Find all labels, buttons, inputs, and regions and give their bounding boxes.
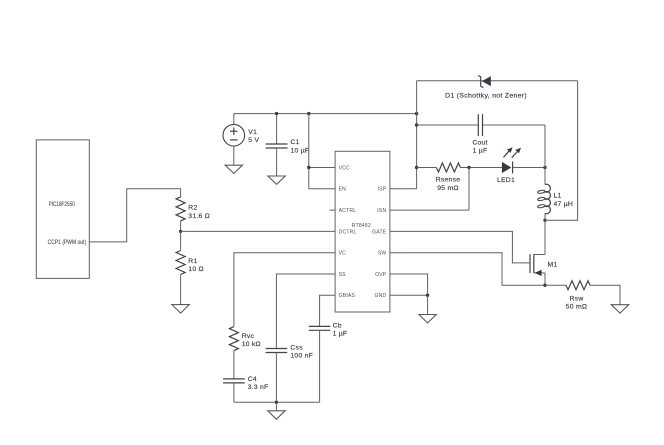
wire supply rail V1 to D1 column <box>234 113 417 115</box>
transistor M1 (NMOS) <box>529 254 531 273</box>
wire Cout row <box>417 124 479 126</box>
junction source/SW/Rsw <box>543 284 546 287</box>
junction rail/C1 <box>275 112 278 115</box>
wire Rvc to C4 <box>233 351 235 379</box>
wire D1 top row <box>417 80 578 82</box>
svg-text:R2: R2 <box>188 205 197 212</box>
ground symbol (below V1) <box>225 165 242 173</box>
IC U1 RT8482 box <box>335 151 390 312</box>
svg-text:SW: SW <box>378 251 387 257</box>
junction bottom net / ground <box>275 401 278 404</box>
wire node A to DCTRL pin <box>181 230 336 232</box>
capacitor Cb <box>309 325 331 327</box>
wire SS pin to Css <box>276 274 335 349</box>
node A junction (R1/R2/DCTRL) <box>179 230 182 233</box>
svg-text:10 Ω: 10 Ω <box>188 266 204 273</box>
svg-text:R1: R1 <box>188 258 197 265</box>
wire column to Rsense <box>417 167 437 169</box>
wire L1 bottom to node <box>544 213 546 220</box>
svg-text:10 µF: 10 µF <box>291 147 310 154</box>
wire SW pin to source node <box>390 253 545 286</box>
LED LED1 <box>502 162 511 173</box>
svg-text:SS: SS <box>339 272 347 278</box>
svg-text:10 kΩ: 10 kΩ <box>242 341 261 348</box>
svg-text:DCTRL: DCTRL <box>339 229 357 235</box>
ground symbol (below GND pin) <box>419 315 436 323</box>
svg-text:Cout: Cout <box>472 139 487 146</box>
voltage source V1 5V <box>233 114 235 125</box>
wire GBIAS pin to Cb <box>320 295 336 326</box>
wire rail to VCC and EN pins <box>309 114 335 189</box>
svg-text:5 V: 5 V <box>248 137 259 144</box>
wire CCP1 output to R2 top <box>89 189 180 242</box>
capacitor Cout <box>477 114 479 136</box>
svg-text:EN: EN <box>339 187 347 193</box>
svg-text:ISN: ISN <box>377 208 386 214</box>
wire ISP pin to sense column <box>390 188 417 190</box>
microcontroller U2 PIC18F2550 box <box>36 140 89 279</box>
wire bottom net <box>234 401 320 403</box>
ground symbol (below C1) <box>268 176 285 184</box>
svg-text:GND: GND <box>375 293 387 299</box>
svg-text:50 mΩ: 50 mΩ <box>566 304 587 311</box>
svg-text:C1: C1 <box>291 139 300 146</box>
svg-text:GBIAS: GBIAS <box>339 293 356 299</box>
junction rail/D1 column <box>415 112 418 115</box>
svg-text:PIC18F2550: PIC18F2550 <box>49 202 76 208</box>
svg-text:OVP: OVP <box>375 272 387 278</box>
svg-text:Rsense: Rsense <box>436 177 461 184</box>
resistor R2 <box>176 197 185 221</box>
wire D1/ISP column <box>416 81 418 189</box>
capacitor C4 <box>223 378 245 380</box>
svg-text:Rsw: Rsw <box>570 295 584 302</box>
svg-text:LED1: LED1 <box>497 177 515 184</box>
LED1 emission arrow 1 <box>503 150 510 157</box>
wire GND node down <box>427 295 429 314</box>
svg-text:RT8482: RT8482 <box>352 223 371 229</box>
junction Rsense/ISN <box>467 166 470 169</box>
wire L1 column top <box>544 125 546 184</box>
wire C4 to bottom net <box>233 383 235 402</box>
wire Css to bottom net <box>275 353 277 403</box>
svg-text:3.3 nF: 3.3 nF <box>248 384 269 391</box>
wire source node to Rsw <box>545 284 566 286</box>
svg-text:GATE: GATE <box>372 229 387 235</box>
svg-text:Css: Css <box>290 345 303 352</box>
svg-text:1 µF: 1 µF <box>333 331 348 338</box>
svg-text:VC: VC <box>339 251 347 257</box>
junction column/Cout row <box>415 123 418 126</box>
ACTRL pin stub <box>330 209 336 211</box>
svg-text:CCP1 (PWM out): CCP1 (PWM out) <box>48 240 87 246</box>
LED1 emission arrow 2 <box>512 151 519 158</box>
svg-text:ISP: ISP <box>378 187 387 193</box>
junction L1/D1 return/drain <box>543 219 546 222</box>
svg-text:VCC: VCC <box>339 165 350 171</box>
svg-text:1 µF: 1 µF <box>473 148 488 155</box>
svg-text:D1 (Schottky, not Zener): D1 (Schottky, not Zener) <box>445 93 527 100</box>
wire ISN pin to sense node <box>390 209 469 211</box>
ground symbol (below R1) <box>172 305 189 314</box>
junction LED row / L1 column <box>543 166 546 169</box>
wire GND pin <box>390 294 428 296</box>
wire VC pin to Rvc <box>234 253 335 327</box>
svg-text:ACTRL: ACTRL <box>339 208 357 214</box>
inductor L1 <box>545 184 550 213</box>
wire OVP pin to GND node <box>390 274 428 295</box>
svg-text:Cb: Cb <box>333 322 342 329</box>
resistor Rsw <box>566 281 590 290</box>
svg-text:C4: C4 <box>248 376 257 383</box>
diode D1 (Schottky) <box>482 76 491 86</box>
wire Cb to bottom net <box>319 330 321 402</box>
capacitor Css <box>266 348 288 350</box>
junction VCC branch <box>307 166 310 169</box>
junction rail/VCC branch <box>307 112 310 115</box>
wire Rsw to ground <box>590 285 620 305</box>
wire R2 bottom to node A <box>180 221 182 232</box>
ground symbol (bottom net) <box>268 411 285 419</box>
resistor Rvc <box>229 327 238 351</box>
svg-text:100 nF: 100 nF <box>290 353 313 360</box>
wire bottom net ground stem <box>275 402 277 411</box>
wire D1 return right edge <box>545 81 578 221</box>
wire drain column <box>544 220 546 254</box>
capacitor C1 <box>276 114 278 144</box>
svg-text:L1: L1 <box>554 193 562 200</box>
svg-text:V1: V1 <box>248 129 257 136</box>
ground symbol (right, below Rsw) <box>611 305 628 313</box>
junction OVP/GND <box>426 294 429 297</box>
resistor Rsense <box>436 163 460 172</box>
wire Rsense to LED1 <box>460 167 502 169</box>
resistor R1 <box>180 231 182 250</box>
svg-text:31.6 Ω: 31.6 Ω <box>188 213 210 220</box>
svg-text:95 mΩ: 95 mΩ <box>437 185 458 192</box>
svg-text:M1: M1 <box>548 261 558 268</box>
svg-text:Rvc: Rvc <box>242 333 255 340</box>
junction column/Rsense row <box>415 166 418 169</box>
svg-text:47 µH: 47 µH <box>554 201 574 208</box>
wire GATE pin to M1 gate <box>390 231 530 263</box>
